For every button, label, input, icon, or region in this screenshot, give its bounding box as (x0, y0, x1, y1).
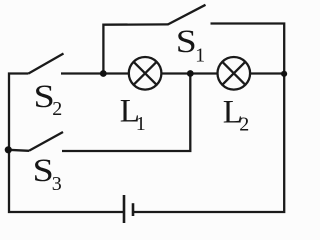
label L2 (223, 95, 249, 136)
wire: top-left vertical riser + top run to S1 pivot (103, 24, 168, 73)
wire: stub from left node to S3 pivot (8, 150, 29, 151)
lamp L1 (129, 57, 162, 90)
lamp L2 (218, 57, 251, 90)
node D junction dot (5, 146, 12, 153)
label S2 (34, 79, 63, 120)
switch S2 blade (29, 54, 64, 74)
node C junction dot (281, 71, 287, 77)
wire: between L1 and L2 (161, 72, 218, 74)
battery B1 short plate (-) (132, 203, 135, 216)
wire: bottom-right run + right vertical + top-right run (133, 24, 284, 213)
svg-text:S: S (33, 153, 54, 189)
label L1 (120, 93, 146, 135)
svg-text:1: 1 (195, 44, 205, 66)
wire: L2 to right vertical (250, 72, 284, 74)
node A junction dot (100, 70, 107, 77)
node B junction dot (187, 70, 194, 77)
svg-text:2: 2 (239, 113, 249, 135)
battery B1 long plate (+) (123, 195, 126, 223)
svg-text:2: 2 (52, 98, 62, 120)
svg-text:1: 1 (136, 113, 146, 135)
switch S1 blade (168, 5, 206, 25)
wire: left vertical + bottom-left run to battery (9, 74, 123, 213)
wire: main run from S2 to lamp L1 (61, 72, 129, 74)
label S1 (176, 24, 205, 66)
label S3 (33, 153, 62, 195)
svg-text:3: 3 (52, 173, 62, 195)
wire: S3 branch riser down from node B and run left (62, 74, 190, 152)
switch S3 blade (29, 132, 63, 151)
svg-text:S: S (176, 24, 197, 60)
